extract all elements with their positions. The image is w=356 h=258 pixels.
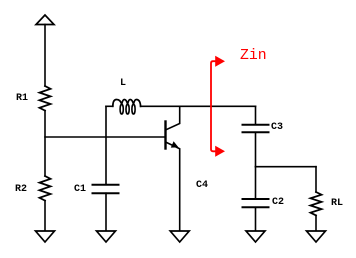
capacitor C1 — [93, 185, 119, 193]
wire top node horizontal — [141, 105, 256, 107]
resistor RL — [311, 192, 322, 215]
Zin probe top arrow (red) — [215, 56, 225, 67]
wire C1 to ground — [105, 193, 107, 231]
svg-text:C4: C4 — [196, 180, 208, 191]
wire supply to R1 — [44, 25, 46, 87]
transistor Q1 emitter — [166, 142, 180, 231]
svg-text:C3: C3 — [271, 122, 283, 133]
svg-text:RL: RL — [331, 198, 343, 209]
wire RL to ground — [315, 215, 317, 231]
wire base node horizontal — [45, 136, 165, 138]
svg-text:L: L — [120, 78, 126, 89]
wire R1 to R2 — [44, 111, 46, 176]
svg-text:R2: R2 — [15, 184, 27, 195]
resistor R1 — [40, 86, 51, 111]
ground (C1) — [97, 231, 116, 242]
ground (C2) — [246, 231, 265, 242]
ground (left rail) — [36, 231, 55, 242]
capacitor C3 — [243, 125, 269, 133]
transistor Q1 emitter arrow — [171, 141, 179, 147]
wire R2 to ground — [44, 201, 46, 231]
wire inductor left drop to C1 — [105, 106, 107, 184]
inductor L — [106, 100, 141, 115]
capacitor C2 — [243, 199, 269, 207]
wire junction down to RL — [315, 167, 317, 192]
wire C3 to junction — [255, 132, 257, 166]
wire junction to C2 — [255, 167, 257, 199]
transistor Q1 base bar — [164, 122, 166, 149]
ground (RL) — [307, 231, 326, 242]
svg-text:C1: C1 — [74, 184, 86, 195]
Zin probe bottom arrow (red) — [215, 146, 225, 157]
wire junction horizontal to RL branch — [256, 166, 317, 168]
ground (emitter) — [170, 231, 189, 242]
power supply up-triangle — [36, 15, 54, 25]
transistor Q1 collector — [166, 106, 180, 130]
resistor R2 — [40, 176, 51, 201]
wire C2 to ground — [255, 207, 257, 231]
svg-text:Zin: Zin — [240, 48, 267, 64]
Zin probe line (red) — [211, 61, 216, 151]
wire top node corner to C3 — [255, 106, 257, 124]
svg-text:R1: R1 — [16, 93, 28, 104]
svg-text:C2: C2 — [272, 197, 284, 208]
